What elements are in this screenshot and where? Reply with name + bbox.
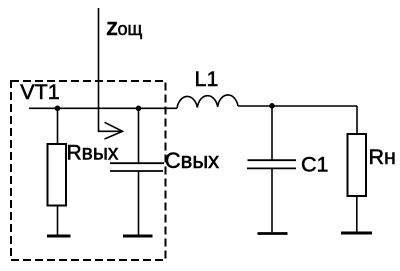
resistor Rн	[348, 134, 367, 196]
capacitor C1	[247, 160, 296, 168]
transistor VT1 dashed box	[11, 81, 166, 260]
resistor Rвых	[48, 144, 67, 206]
wire capacitor C1 bottom	[271, 168, 273, 232]
wire capacitor Cвых top	[138, 108, 140, 163]
svg-text:Cвых: Cвых	[165, 148, 219, 173]
wire Rн top	[356, 106, 358, 134]
probe line Zощ	[99, 8, 122, 131]
arrowhead	[105, 122, 123, 139]
svg-text:Rвых: Rвых	[67, 142, 119, 165]
wire capacitor Cвых bottom	[138, 171, 140, 235]
wire resistor bottom	[57, 206, 59, 236]
svg-text:Rн: Rн	[369, 145, 396, 169]
wire main right	[238, 105, 357, 107]
junction dot C	[269, 103, 275, 109]
ground Rн	[341, 232, 372, 235]
wire resistor top	[57, 108, 59, 144]
svg-text:C1: C1	[301, 153, 328, 177]
wire main left	[29, 107, 177, 109]
wire Rн bottom	[356, 196, 358, 232]
ground C1	[258, 232, 288, 235]
junction dot B	[136, 106, 142, 112]
inductor L1	[177, 95, 238, 108]
wire capacitor C1 top	[271, 106, 273, 160]
svg-text:VT1: VT1	[20, 80, 59, 104]
svg-text:Zощ: Zощ	[107, 19, 143, 39]
junction dot A	[55, 106, 61, 112]
ground Rвых	[47, 235, 71, 238]
svg-text:L1: L1	[195, 67, 219, 91]
capacitor Cвых	[110, 163, 164, 171]
ground Cвых	[123, 235, 153, 238]
